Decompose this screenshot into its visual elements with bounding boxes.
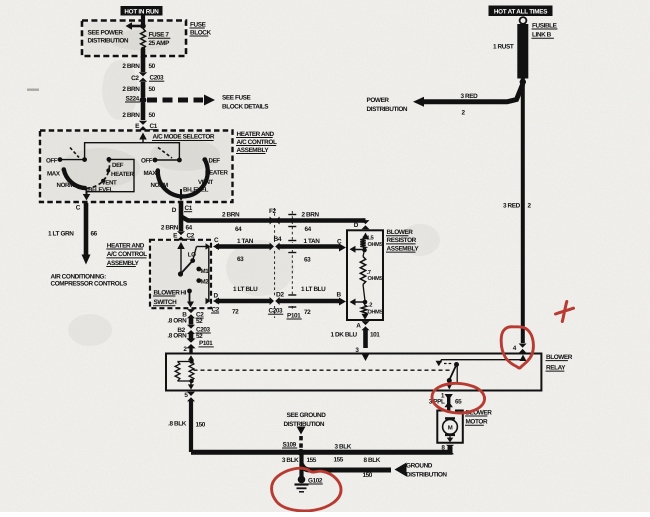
svg-text:D2: D2 (276, 291, 284, 298)
svg-text:NORM: NORM (57, 182, 75, 189)
wire .8 ORN 52 (upper) (189, 318, 194, 325)
svg-text:POWER: POWER (367, 97, 390, 104)
wire D down (179, 203, 184, 231)
svg-text:2 BRN: 2 BRN (122, 63, 140, 70)
svg-text:P101: P101 (287, 312, 301, 319)
wire 1 TAN right (279, 244, 339, 249)
svg-text:FUSE: FUSE (190, 21, 207, 28)
svg-text:A/C CONTROL: A/C CONTROL (237, 139, 277, 146)
svg-text:SEE FUSE: SEE FUSE (222, 95, 252, 102)
svg-text:BLOWER: BLOWER (154, 289, 181, 296)
ground G102 (298, 476, 306, 484)
svg-text:HI: HI (181, 289, 187, 296)
wire HI to B (189, 291, 191, 304)
A/C mode selector dashed box (40, 131, 233, 203)
resistor .2 OHMS (361, 305, 366, 316)
blower switch wiper (178, 271, 183, 276)
svg-text:NORM: NORM (151, 182, 169, 189)
svg-text:1 TAN: 1 TAN (304, 238, 321, 245)
blower switch dashed box (150, 240, 211, 308)
svg-text:BLOWER: BLOWER (387, 229, 414, 236)
svg-text:SEE GROUND: SEE GROUND (287, 412, 327, 419)
svg-text:FUSE 7: FUSE 7 (149, 31, 170, 38)
svg-text:OHMS: OHMS (368, 276, 384, 282)
svg-text:BI-LEVEL: BI-LEVEL (88, 186, 114, 193)
svg-text:150: 150 (196, 422, 206, 429)
svg-text:1 LT BLU: 1 LT BLU (233, 286, 258, 293)
svg-text:A/C MODE SELECTOR: A/C MODE SELECTOR (153, 134, 215, 141)
wire switch output rail (208, 247, 210, 302)
svg-text:64: 64 (186, 224, 193, 231)
svg-text:.8 BLK: .8 BLK (168, 421, 187, 428)
svg-text:1 LT GRN: 1 LT GRN (48, 231, 74, 238)
relay linkage (dashed) (194, 369, 453, 371)
wire 3 RED 2 arrow to power distribution (424, 84, 523, 102)
svg-text:HEATER AND: HEATER AND (107, 242, 145, 249)
switch: left mode rotor OFF contact (58, 157, 63, 162)
svg-text:S109: S109 (283, 441, 297, 448)
svg-text:C203: C203 (150, 75, 165, 82)
svg-text:52: 52 (196, 333, 203, 340)
right switch arc thick MAX to DEF (158, 160, 208, 197)
blower motor box (437, 411, 463, 443)
svg-text:.7: .7 (367, 270, 371, 276)
svg-text:3 RED: 3 RED (503, 202, 521, 209)
wire LO to C rail (193, 247, 197, 261)
fusible link B (thick bar) (517, 24, 528, 79)
wire 8 BLK 150 branch (302, 464, 392, 470)
svg-text:MAX: MAX (144, 170, 158, 177)
svg-text:1 TAN: 1 TAN (237, 238, 254, 245)
fusible link B terminal ring (520, 17, 527, 24)
svg-text:A/C CONTROL: A/C CONTROL (107, 251, 147, 258)
svg-text:50: 50 (149, 63, 156, 70)
left switch DEF contact + jumper box (107, 157, 112, 162)
node: power dist junction (520, 79, 526, 85)
label HOT IN RUN (121, 6, 163, 16)
wire 3 BLK main ground run (191, 447, 450, 452)
svg-text:COMPRESSOR CONTROLS: COMPRESSOR CONTROLS (51, 281, 128, 288)
connector C2 / C203 (139, 72, 147, 82)
contact M2 (196, 278, 201, 283)
wire .8 ORN 52 (lower) (189, 334, 194, 339)
svg-text:RELAY: RELAY (546, 364, 566, 371)
terminal D (resistor) (362, 218, 366, 223)
svg-text:2 BRN: 2 BRN (302, 212, 320, 219)
svg-text:HEATER AND: HEATER AND (237, 131, 275, 138)
svg-text:1.5: 1.5 (367, 236, 375, 242)
svg-text:M2: M2 (201, 279, 210, 286)
svg-text:.8 ORN: .8 ORN (167, 332, 187, 339)
wire right output to D (180, 189, 182, 196)
svg-text:64: 64 (235, 226, 242, 233)
connector P101 (186, 338, 195, 348)
svg-text:1 RUST: 1 RUST (493, 44, 514, 51)
svg-text:8 BLK: 8 BLK (364, 457, 381, 464)
svg-text:GROUND: GROUND (406, 462, 433, 469)
svg-text:3 BLK: 3 BLK (282, 457, 299, 464)
motor symbol (445, 417, 455, 419)
svg-text:2 BRN: 2 BRN (222, 212, 240, 219)
svg-text:SEE POWER: SEE POWER (88, 30, 124, 37)
wire relay 1 to motor (447, 394, 450, 411)
red circle around G102 (272, 468, 341, 511)
left switch arc thick MAX to BI-LEVEL (64, 170, 87, 189)
blower relay box (166, 354, 541, 391)
svg-text:63: 63 (304, 257, 311, 264)
svg-text:DISTRIBUTION: DISTRIBUTION (88, 38, 129, 45)
arrow to ground distribution (up ref) (297, 427, 306, 435)
svg-text:HOT IN RUN: HOT IN RUN (124, 8, 159, 15)
wire switch feed (177, 242, 185, 249)
svg-text:VENT: VENT (102, 179, 118, 186)
svg-text:63: 63 (237, 256, 244, 263)
svg-text:50: 50 (149, 86, 156, 93)
svg-text:64: 64 (305, 226, 312, 233)
svg-text:F2: F2 (269, 208, 277, 215)
svg-text:OHMS: OHMS (368, 309, 384, 315)
svg-text:2 BRN: 2 BRN (122, 112, 140, 119)
wire 1 DK BLU 101 (363, 330, 368, 348)
wire left output to C (86, 188, 88, 195)
node C junction (362, 248, 367, 253)
svg-text:C1: C1 (185, 205, 193, 212)
red circle around relay terminal 4 (501, 327, 533, 368)
svg-text:52: 52 (196, 318, 203, 325)
fuse F7 element (141, 29, 146, 50)
svg-text:BLOCK DETAILS: BLOCK DETAILS (222, 104, 269, 111)
relay armature (454, 362, 459, 367)
svg-text:SWITCH: SWITCH (154, 299, 178, 306)
svg-text:65: 65 (455, 399, 462, 406)
wire 1 LT BLU left (213, 298, 219, 305)
svg-text:.2: .2 (368, 302, 372, 309)
wire selector feed bus (85, 142, 180, 144)
svg-text:C2: C2 (212, 306, 220, 313)
svg-text:150: 150 (363, 472, 373, 479)
svg-text:C2: C2 (187, 233, 195, 240)
connector line C203 (dashed) (274, 208, 276, 216)
wire see-power-distribution arrow (128, 25, 143, 28)
wire to terminal C (352, 249, 365, 251)
svg-text:HEATER: HEATER (111, 171, 135, 178)
wire C1 feed into selector (139, 133, 147, 140)
svg-text:OFF: OFF (141, 158, 153, 165)
contact HI (187, 289, 192, 294)
wire 1 TAN left (213, 243, 219, 250)
resistor .7 OHMS (363, 250, 365, 257)
svg-text:72: 72 (232, 308, 239, 315)
wire from HOT IN RUN into fuse block (141, 16, 145, 27)
wire 3 RED 2 down to relay 4 (521, 84, 525, 343)
svg-text:S224: S224 (126, 95, 140, 102)
left switch arc dashed BI-LEVEL to DEF (87, 159, 110, 188)
wire .8 BLK 150 from relay 5 (189, 400, 193, 452)
svg-text:M: M (448, 424, 453, 431)
svg-text:72: 72 (304, 309, 311, 316)
fuse block dashed box (82, 21, 186, 57)
svg-text:25 AMP: 25 AMP (149, 40, 171, 47)
red plus mark (556, 302, 574, 322)
svg-text:50: 50 (149, 112, 156, 119)
svg-text:155: 155 (307, 457, 317, 464)
svg-text:ASSEMBLY: ASSEMBLY (387, 245, 420, 252)
wire 2 BRN branch to resistor D (181, 217, 362, 221)
wire 2 BRN 50 (lower) (141, 103, 146, 120)
svg-text:ASSEMBLY: ASSEMBLY (237, 147, 270, 154)
svg-text:C2: C2 (131, 75, 139, 82)
svg-text:BLOWER: BLOWER (546, 354, 573, 361)
svg-text:1 DK BLU: 1 DK BLU (331, 332, 358, 339)
svg-text:3 RED: 3 RED (461, 93, 479, 100)
svg-text:BLOCK: BLOCK (190, 29, 212, 36)
contact LO (190, 258, 195, 263)
svg-text:66: 66 (91, 231, 98, 238)
svg-text:MOTOR: MOTOR (466, 419, 488, 426)
wire 1 LT BLU right (279, 299, 339, 304)
node B junction (363, 300, 368, 305)
svg-text:RESISTOR: RESISTOR (387, 237, 417, 244)
svg-text:C1: C1 (150, 123, 158, 130)
svg-text:MAX: MAX (47, 171, 61, 178)
svg-text:M1: M1 (201, 268, 210, 275)
red circle around 3 PPL 65 (432, 383, 485, 413)
svg-text:ASSEMBLY: ASSEMBLY (107, 260, 140, 267)
relay fixed contact from terminal 4 (441, 359, 523, 361)
label HOT AT ALL TIMES (489, 6, 553, 17)
svg-text:155: 155 (334, 457, 344, 464)
svg-text:DEF: DEF (112, 162, 124, 169)
contact M1 (196, 267, 201, 272)
svg-text:VENT: VENT (198, 179, 214, 186)
resistor 1.5 OHMS (363, 235, 366, 238)
svg-text:LINK B: LINK B (532, 32, 552, 39)
svg-text:P101: P101 (199, 340, 213, 347)
wire 1 LT GRN 66 (84, 203, 89, 255)
wire 2 BRN 50 (upper) (141, 56, 146, 72)
svg-text:2 BRN: 2 BRN (122, 86, 140, 93)
svg-text:G102: G102 (308, 477, 323, 484)
blower resistor assembly box (347, 230, 383, 320)
wire fuse to box edge (141, 49, 146, 58)
svg-text:HOT AT ALL TIMES: HOT AT ALL TIMES (494, 9, 547, 16)
node: fuse feed junction (140, 23, 146, 29)
wire to terminal B (352, 301, 365, 303)
svg-text:DEF: DEF (209, 157, 221, 164)
relay terminal 2 arrow (188, 355, 194, 360)
svg-text:OFF: OFF (46, 157, 58, 164)
wiper (dashed) right switch (158, 148, 172, 159)
svg-text:FUSIBLE: FUSIBLE (532, 22, 558, 29)
svg-text:AIR CONDITIONING:: AIR CONDITIONING: (51, 273, 107, 280)
svg-text:101: 101 (370, 332, 380, 339)
relay terminal 5 arrow (190, 381, 192, 386)
arrow ground distribution ref (395, 463, 407, 477)
wire 3 BLK 155 to G102 (299, 454, 303, 477)
svg-text:2 BRN: 2 BRN (161, 224, 179, 231)
svg-text:BI-LEVEL: BI-LEVEL (183, 186, 209, 193)
switch: right mode rotor OFF contact (153, 158, 158, 163)
wire 2 BRN 50 (middle) (141, 82, 146, 97)
svg-text:1 LT BLU: 1 LT BLU (301, 286, 326, 293)
relay coil (189, 359, 193, 363)
svg-text:.8 ORN: .8 ORN (167, 317, 187, 324)
wiper (dashed) left switch (70, 148, 79, 158)
svg-text:3 BLK: 3 BLK (335, 443, 352, 450)
svg-text:OHMS: OHMS (368, 242, 384, 248)
svg-text:DISTRIBUTION: DISTRIBUTION (367, 106, 408, 113)
svg-text:DISTRIBUTION: DISTRIBUTION (406, 472, 447, 479)
stray scan mark (27, 89, 39, 91)
svg-text:HEATER: HEATER (205, 170, 229, 177)
svg-text:C203: C203 (269, 308, 284, 315)
wire dashed arrow to fuse block details (147, 98, 203, 103)
